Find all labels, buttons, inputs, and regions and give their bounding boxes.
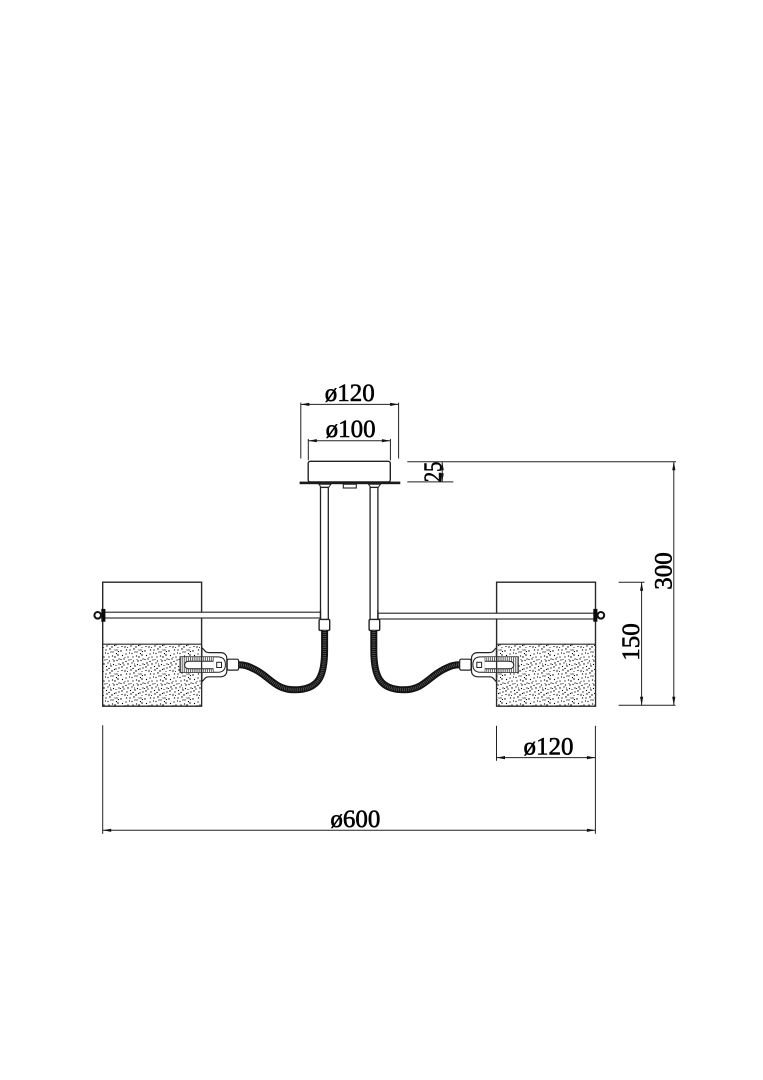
right shade left edge over socket <box>496 645 498 684</box>
right socket arch <box>473 657 485 672</box>
svg-text:ø120: ø120 <box>325 380 375 407</box>
left end ring <box>94 612 101 619</box>
horizontal bar right segment <box>378 613 594 619</box>
dimension 25 <box>407 462 676 482</box>
right shade <box>497 582 596 706</box>
right socket cable nub <box>460 659 471 670</box>
left socket arch <box>214 657 226 672</box>
right lamp socket housing <box>472 648 497 682</box>
left coiled cable <box>239 630 325 689</box>
dimension ⌀120 bottom <box>497 726 596 834</box>
right rod collar <box>369 484 381 487</box>
canopy center nipple <box>343 484 356 488</box>
right rod lower lines over bar <box>377 610 379 620</box>
horizontal bar left segment <box>104 612 321 618</box>
svg-text:ø120: ø120 <box>524 733 574 760</box>
dimension 150 <box>618 582 645 705</box>
left lamp socket housing <box>202 648 227 682</box>
canopy body <box>308 461 390 482</box>
right socket bulb tube <box>485 661 514 669</box>
left rod ferrule <box>319 619 330 630</box>
right end ring <box>598 612 605 619</box>
left socket cable nub <box>227 659 238 670</box>
right shade frosted band <box>497 644 596 705</box>
left rod collar <box>319 484 331 487</box>
left end cap <box>101 609 105 622</box>
right socket screw shell <box>485 657 519 673</box>
left rod <box>321 487 329 619</box>
right end cap <box>593 609 597 622</box>
left socket screw shell <box>180 657 214 673</box>
left shade frosted band <box>103 644 202 705</box>
dimension ⌀100 <box>308 416 390 460</box>
left rod lower lines over bar <box>320 610 322 620</box>
dimension ⌀120 top <box>301 380 399 459</box>
left shade <box>103 582 202 706</box>
right coiled cable <box>374 630 460 689</box>
canopy base plate <box>300 482 401 485</box>
left socket contact square <box>217 662 222 667</box>
right rod ferrule <box>369 619 380 630</box>
svg-text:ø600: ø600 <box>330 806 380 833</box>
svg-text:300: 300 <box>650 552 677 590</box>
svg-text:150: 150 <box>618 623 645 661</box>
right rod <box>370 487 378 619</box>
dimension ⌀600 <box>103 725 596 834</box>
left shade right edge over socket <box>201 645 203 684</box>
dimension 300 <box>619 462 678 706</box>
svg-text:ø100: ø100 <box>326 416 376 443</box>
right socket contact square <box>477 662 482 667</box>
left socket bulb tube <box>185 661 214 669</box>
